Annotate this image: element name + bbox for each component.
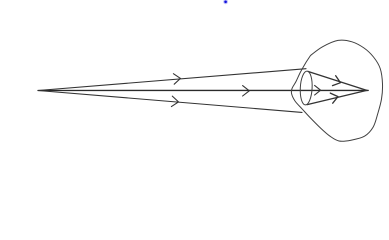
- arrowhead on internal bottom ray: [330, 93, 338, 103]
- eyeball outline with cornea bulge: [291, 40, 382, 141]
- arrowhead on axis (left): [243, 86, 250, 96]
- wire: bottom ray from apex to cornea: [38, 91, 302, 113]
- arrowhead on internal top ray: [333, 76, 341, 86]
- node: blue point marker (top): [223, 0, 228, 4]
- wire: top ray from apex to cornea: [38, 69, 306, 91]
- arrowhead on top ray: [173, 74, 180, 85]
- arrowhead on axis (at lens): [315, 85, 321, 95]
- arrowhead on bottom ray: [171, 96, 178, 107]
- wire: internal bottom ray lens to retina: [307, 90, 367, 104]
- wire: internal top ray lens to retina: [308, 72, 367, 91]
- lens ellipse: [299, 71, 313, 105]
- wire: axis ray from apex to retina: [38, 89, 368, 91]
